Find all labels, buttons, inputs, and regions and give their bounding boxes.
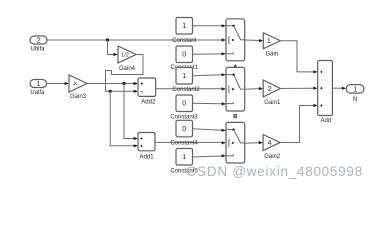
svg-text:1/2: 1/2 <box>121 53 129 59</box>
wire Constant3 to switch A input3 <box>193 102 227 105</box>
sum block Add1 <box>138 133 155 161</box>
svg-text:0: 0 <box>182 52 186 59</box>
svg-text:Constant2: Constant2 <box>172 87 200 93</box>
junction node on Gain4 wire <box>109 90 112 93</box>
constant block Constant1 value 0 <box>171 46 199 71</box>
svg-text:Add1: Add1 <box>140 154 155 160</box>
junction node on Gain3 wire <box>122 82 125 85</box>
wire Gain4 to Add2 minus input <box>106 55 144 93</box>
svg-text:CSDN @weixin_48005998: CSDN @weixin_48005998 <box>187 164 363 179</box>
svg-text:1: 1 <box>182 154 186 161</box>
constant block Constant5 value 1 <box>170 149 198 175</box>
svg-text:1: 1 <box>182 23 186 30</box>
gain block Gain2 value 4 <box>263 135 281 161</box>
svg-text:Gain1: Gain1 <box>264 100 281 106</box>
wire Gain3 to Add2 plus input <box>87 82 138 85</box>
label B of switch B <box>234 114 237 118</box>
wire Add1 to switch B control <box>155 141 226 144</box>
gain block Gain value 1 <box>263 33 280 58</box>
svg-text:Ublfa: Ublfa <box>30 47 45 53</box>
svg-text:Add2: Add2 <box>141 100 156 106</box>
wire switch B to Gain2 <box>245 141 263 144</box>
svg-text:N: N <box>353 97 357 103</box>
gain block Gain4 <box>118 46 136 72</box>
wire switch A to Gain1 <box>245 87 264 90</box>
label A of switch A <box>234 65 237 68</box>
wire Constant5 to switch B input3 <box>193 154 227 157</box>
wire Gain to Add input1 <box>280 41 317 74</box>
inport 1 Ualfa <box>30 80 47 96</box>
svg-text:-K-: -K- <box>72 82 79 88</box>
sum block Add2 <box>138 78 156 106</box>
svg-text:0: 0 <box>182 126 186 133</box>
constant block Constant3 value 0 <box>170 95 198 121</box>
svg-text:1: 1 <box>36 81 40 88</box>
switch block A <box>226 67 245 111</box>
wire junction to Add1 second input <box>110 91 138 147</box>
svg-text:Add: Add <box>320 118 331 124</box>
svg-text:1: 1 <box>267 38 271 45</box>
outport 1 N <box>346 85 364 103</box>
wire Gain2 to Add input3 <box>280 104 318 143</box>
switch block top (unnamed) <box>226 19 245 61</box>
wire Constant2 to switch A input1 <box>193 73 227 76</box>
wire Gain1 to Add input2 <box>280 87 317 90</box>
svg-text:2: 2 <box>37 38 41 45</box>
gain block Gain1 value 2 <box>263 80 281 106</box>
wire Constant4 to switch B input1 <box>193 129 227 132</box>
svg-text:0: 0 <box>182 101 186 108</box>
svg-text:Constant4: Constant4 <box>170 141 198 147</box>
svg-text:Constant3: Constant3 <box>170 115 198 121</box>
wire Ublfa to switch control <box>47 38 226 41</box>
svg-text:Gain: Gain <box>265 51 278 57</box>
svg-text:Constant: Constant <box>172 38 196 44</box>
wire Ualfa to Gain3 <box>47 82 70 85</box>
wire switch1 to Gain <box>245 39 264 42</box>
svg-text:Gain4: Gain4 <box>119 66 136 72</box>
wire junction to Gain4 <box>108 40 118 56</box>
svg-text:4: 4 <box>268 140 272 147</box>
wire junction to Add1 first input <box>124 84 138 141</box>
constant block Constant4 value 0 <box>170 120 198 146</box>
inport 2 Ublfa <box>30 36 47 53</box>
junction node on Ublfa wire <box>106 38 109 41</box>
wire Add to outport N <box>332 87 346 90</box>
svg-text:2: 2 <box>268 86 272 93</box>
svg-text:Gain3: Gain3 <box>70 94 87 100</box>
svg-text:1: 1 <box>353 86 357 93</box>
svg-text:1: 1 <box>182 73 186 80</box>
constant block Constant2 value 1 <box>172 68 200 94</box>
wire Add2 to switch A control <box>156 87 226 90</box>
wire Constant to switch1 input1 <box>193 24 227 27</box>
gain block Gain3 <box>69 75 87 100</box>
svg-text:Gain2: Gain2 <box>264 154 281 160</box>
switch block B <box>226 122 245 163</box>
svg-text:Ualfa: Ualfa <box>30 90 45 96</box>
wire Constant1 to switch1 input3 <box>193 52 227 55</box>
sum block Add <box>318 61 333 125</box>
constant block Constant value 1 <box>172 18 196 44</box>
